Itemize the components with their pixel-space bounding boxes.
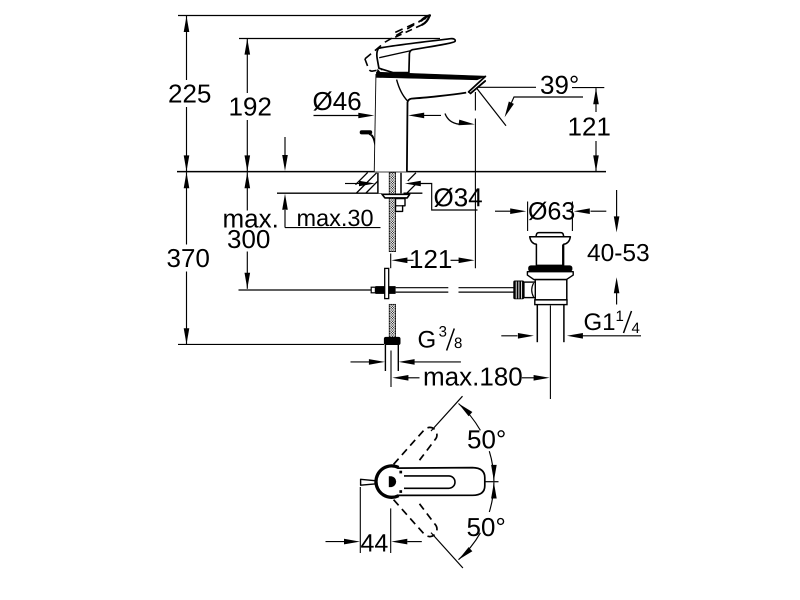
G3/8 label bbox=[419, 331, 435, 348]
Oe46 left arrow bbox=[314, 115, 360, 117]
Oe46 right arrow bbox=[423, 114, 441, 116]
label 225 bbox=[169, 84, 210, 102]
clamp washer under gasket bbox=[527, 272, 573, 280]
aerator end face (angled) bbox=[469, 76, 486, 92]
Oe46 label bbox=[313, 91, 360, 110]
arrowheads 192 bbox=[245, 39, 251, 55]
44 extension line left (pin) bbox=[359, 487, 361, 553]
handle crease line bbox=[379, 51, 410, 58]
handle lever (lowered, solid) bbox=[377, 39, 455, 73]
50deg label upper bbox=[468, 430, 505, 448]
hole edge right bbox=[400, 173, 402, 194]
Oe34 leader + label bbox=[420, 184, 478, 211]
50deg arc upper bbox=[459, 404, 481, 431]
pull-rod tee: vertical bar bbox=[385, 268, 389, 298]
dimension line 370 bbox=[186, 172, 188, 244]
arrowheads max.300 bbox=[245, 172, 251, 188]
50deg label lower bbox=[468, 518, 505, 536]
label 370 bbox=[167, 249, 208, 267]
junction ticks bbox=[399, 471, 402, 474]
39deg horizontal reference line bbox=[478, 86, 537, 88]
121 right dimension line bbox=[595, 88, 597, 112]
counter hatch right bbox=[407, 173, 417, 193]
spout swivel arc arrow bbox=[445, 114, 459, 125]
handle raised dashed lower edge bbox=[395, 18, 427, 33]
spout top wedge (thick) bbox=[376, 72, 485, 80]
Oe63 label bbox=[529, 202, 574, 221]
hose connector tube (open) bbox=[384, 345, 386, 371]
G1 1/4 label bbox=[585, 313, 615, 330]
44 label bbox=[361, 534, 388, 551]
stud axis extension bbox=[390, 254, 392, 269]
G1 1/4 dimension arrows bbox=[501, 335, 517, 337]
lever body (solid) bbox=[398, 468, 485, 496]
counter hatch left bbox=[356, 172, 379, 193]
pivot cap (C ring) bbox=[376, 466, 399, 497]
plug cap bbox=[536, 233, 564, 237]
body white fill bbox=[375, 74, 407, 172]
lever inner contour bbox=[404, 476, 455, 488]
arrowheads 225 bbox=[184, 16, 190, 32]
hose end reference line (y=290) bbox=[239, 289, 372, 291]
tee left coupler (small box) bbox=[371, 287, 375, 293]
max.30 callout bbox=[277, 137, 422, 228]
dimension line 192 bbox=[246, 39, 248, 93]
39deg leader with arrow bbox=[511, 97, 583, 103]
pop-up pull knob (rear of body) bbox=[360, 130, 373, 134]
rubber gasket (dark band) bbox=[528, 265, 572, 271]
39deg angle leg (diagonal) bbox=[477, 88, 507, 126]
arrowheads 370 bbox=[184, 172, 190, 188]
mounting washer plate bbox=[382, 194, 410, 198]
dimension line max.300 bbox=[246, 172, 248, 210]
drain axis extension bbox=[549, 306, 551, 400]
threaded stud (checkered) upper bbox=[389, 172, 395, 251]
39deg label bbox=[541, 76, 578, 94]
centerline right of lever bbox=[485, 481, 499, 483]
50deg leg upper bbox=[431, 396, 463, 431]
dimension line 225 bbox=[186, 16, 188, 80]
cap D-mark bbox=[389, 476, 396, 487]
waste body bbox=[535, 280, 567, 300]
flange bell bbox=[530, 237, 571, 266]
faucet axis extension (max.180 left) bbox=[390, 351, 392, 388]
extension line 192 ref (top of lowered handle) bbox=[239, 38, 440, 40]
counter underside line bbox=[277, 192, 382, 194]
max.30 lower arrow shaft + leader underline bbox=[284, 210, 286, 228]
lever dashed upper position bbox=[394, 427, 437, 464]
horizontal pull rod to drain, segment A bbox=[396, 287, 449, 289]
G3/8 dimension arrows bbox=[351, 361, 370, 363]
121 right label bbox=[569, 117, 609, 135]
lever dashed lower position bbox=[394, 500, 437, 537]
tee right nut (dark) bbox=[389, 286, 396, 294]
spout underside and body right edge bbox=[407, 93, 466, 172]
Oe34 left arrow bbox=[345, 183, 360, 185]
tee left nut (dark) bbox=[375, 286, 384, 294]
handle raised dashed lower edge B bbox=[394, 25, 423, 38]
faucet body left edge bbox=[375, 74, 377, 172]
horizontal pull rod segment B (after break) bbox=[459, 287, 514, 289]
handle/body gap shadow bbox=[377, 69, 382, 74]
40-53 dimension bbox=[616, 190, 618, 217]
40-53 label bbox=[588, 244, 649, 261]
handle raised (dashed ghost) upper edge bbox=[365, 20, 422, 59]
Oe63 extension lines bbox=[527, 202, 529, 232]
pull-rod port cylinder bbox=[524, 282, 535, 298]
50deg arc lower bbox=[489, 482, 494, 512]
handle raised dashed base bbox=[365, 54, 406, 72]
extension line top (225 ref, top of raised handle) bbox=[178, 15, 429, 17]
50deg leg lower bbox=[431, 533, 463, 568]
Oe63 dimension arrows bbox=[495, 210, 511, 212]
max.180 dimension bbox=[392, 375, 408, 381]
threaded stud lower section bbox=[389, 304, 395, 337]
label 192 bbox=[230, 97, 270, 115]
body inner contour curve bbox=[397, 80, 408, 101]
reference line under faucet (370 bottom / G3/8 level) bbox=[178, 343, 384, 345]
label max.30 bbox=[298, 210, 373, 227]
G3/8 nut (dark) bbox=[384, 337, 401, 345]
alignment pin bbox=[361, 479, 375, 485]
label max.300 bbox=[224, 214, 276, 228]
mounting nut (stepped, right of stud) bbox=[396, 199, 406, 212]
hole edge left bbox=[377, 173, 379, 194]
121 bottom dimension bbox=[406, 259, 414, 261]
max.30 upper arrow shaft (above counter) bbox=[284, 137, 286, 155]
pull-rod knurled knob (dark) bbox=[513, 281, 524, 300]
coupling ring bbox=[535, 300, 567, 305]
countertop surface line bbox=[177, 171, 606, 173]
tailpipe bbox=[536, 305, 538, 343]
handle raised solid tip bbox=[421, 15, 429, 20]
shank clearance slots (white) bbox=[378, 173, 401, 194]
44 dimension arrows bbox=[326, 541, 345, 543]
44 extension line right (pivot axis) bbox=[390, 508, 392, 553]
121 right: extension line from spout tip bbox=[474, 92, 476, 111]
